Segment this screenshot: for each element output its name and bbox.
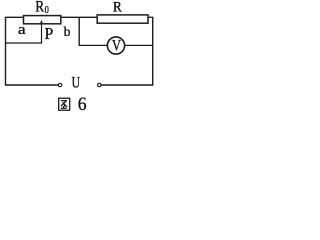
- svg-text:a: a: [18, 22, 26, 38]
- rheostat R0 body: [24, 16, 61, 24]
- wire slider tap horizontal: [5, 42, 42, 44]
- svg-text:R: R: [35, 0, 44, 16]
- svg-text:V: V: [112, 38, 122, 55]
- wire voltmeter right: [125, 44, 153, 46]
- wire left vertical: [5, 17, 7, 85]
- wire top left segment: [5, 16, 24, 18]
- wire right vertical: [152, 17, 154, 85]
- svg-text:P: P: [45, 24, 54, 43]
- terminal right: [98, 83, 101, 86]
- rheostat slider arrow P: [40, 20, 43, 43]
- svg-text:6: 6: [78, 95, 87, 115]
- svg-text:0: 0: [45, 4, 50, 16]
- svg-text:U: U: [72, 75, 80, 92]
- wire voltmeter left: [79, 44, 108, 46]
- wire bottom left segment: [5, 84, 58, 86]
- wire top middle segment: [61, 16, 98, 18]
- svg-text:b: b: [64, 25, 71, 40]
- wire bottom right segment: [101, 84, 153, 86]
- svg-text:R: R: [113, 0, 122, 15]
- terminal left: [58, 83, 61, 86]
- voltmeter V1 circle: [107, 37, 124, 54]
- wire top right segment: [148, 16, 153, 18]
- resistor R body: [97, 15, 148, 23]
- node junction voltmeter branch: [78, 17, 80, 45]
- caption character tu (figure): [59, 98, 70, 110]
